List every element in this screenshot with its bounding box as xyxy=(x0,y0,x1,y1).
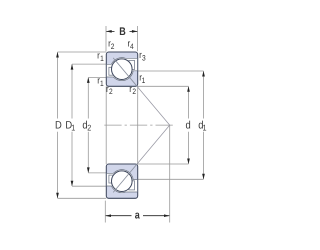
outer ring + inner ring body xyxy=(106,164,137,198)
svg-text:1: 1 xyxy=(100,54,104,63)
dimension d vertical line lower xyxy=(188,132,190,164)
top bearing section xyxy=(106,52,137,86)
leader D top xyxy=(58,51,107,53)
inner raceway boundary xyxy=(107,71,137,81)
svg-text:1: 1 xyxy=(142,76,146,85)
svg-text:1: 1 xyxy=(100,79,104,88)
outer ring + inner ring body xyxy=(106,52,137,86)
dimension B right arrow xyxy=(130,30,138,32)
ball xyxy=(112,171,133,192)
centerline (axis) xyxy=(104,124,174,126)
leader d1 bottom xyxy=(138,178,204,180)
svg-text:2: 2 xyxy=(87,123,91,133)
cavity (white) between rings xyxy=(107,58,137,81)
svg-text:1: 1 xyxy=(71,123,75,133)
svg-text:3: 3 xyxy=(142,54,146,63)
dimension d2 vertical line upper xyxy=(87,78,89,119)
svg-text:D: D xyxy=(55,119,62,131)
inner raceway boundary xyxy=(107,170,137,180)
leader D bottom xyxy=(58,197,107,199)
dimension D vertical line lower xyxy=(57,132,59,198)
cavity (white) between rings xyxy=(107,170,137,193)
dimension d1 vertical line upper xyxy=(203,71,205,118)
contact line top outer segment (to apex) xyxy=(138,87,170,125)
dimension d2 vertical line lower xyxy=(87,132,89,173)
svg-text:d: d xyxy=(186,119,191,131)
contact line top inner segment (through upper ball) xyxy=(113,58,138,87)
ball xyxy=(112,59,133,80)
dimension D1 vertical line upper xyxy=(71,64,73,118)
wire: right face extension between bearings xyxy=(137,86,139,164)
cage bar right xyxy=(129,60,135,69)
dimension d vertical line upper xyxy=(188,87,190,119)
svg-text:B: B xyxy=(119,26,126,38)
leader D1 top xyxy=(72,63,106,65)
svg-text:a: a xyxy=(135,209,141,221)
cage bar right xyxy=(129,181,135,190)
leader d2 bottom xyxy=(88,172,106,174)
dimension D vertical line upper xyxy=(57,52,59,118)
leader d top xyxy=(138,85,189,87)
svg-text:2: 2 xyxy=(111,42,115,51)
wire: left face extension below bottom bearing (a dim) xyxy=(104,201,106,223)
svg-text:2: 2 xyxy=(109,87,113,96)
contact line bottom inner segment (through lower ball) xyxy=(113,163,138,192)
svg-text:1: 1 xyxy=(202,123,206,133)
wire: B extension line left xyxy=(105,26,107,51)
leader d bottom xyxy=(138,163,189,165)
leader d2 top xyxy=(88,76,106,78)
wire: left face extension between bearings xyxy=(105,86,107,164)
dimension B left arrow xyxy=(106,30,114,32)
bottom bearing section (mirror) xyxy=(106,164,137,198)
leader d1 top xyxy=(138,70,204,72)
cage bar left xyxy=(109,67,115,75)
cage bar left xyxy=(109,175,115,183)
label r2 (top-left of upper bearing) xyxy=(97,39,146,97)
dimension a left arrow xyxy=(106,215,132,217)
dimension D1 vertical line lower xyxy=(71,132,73,186)
outer raceway boundary xyxy=(107,58,137,65)
leader D1 bottom xyxy=(72,185,106,187)
dimension d1 vertical line lower xyxy=(203,132,205,179)
wire: apex vertical line down to a dim xyxy=(169,125,171,222)
contact line bottom outer segment (to apex) xyxy=(138,125,170,163)
svg-text:4: 4 xyxy=(130,42,134,51)
outer raceway boundary xyxy=(107,186,137,193)
wire: B extension line right xyxy=(137,26,139,51)
dimension a right arrow xyxy=(143,215,169,217)
svg-text:2: 2 xyxy=(132,87,136,96)
